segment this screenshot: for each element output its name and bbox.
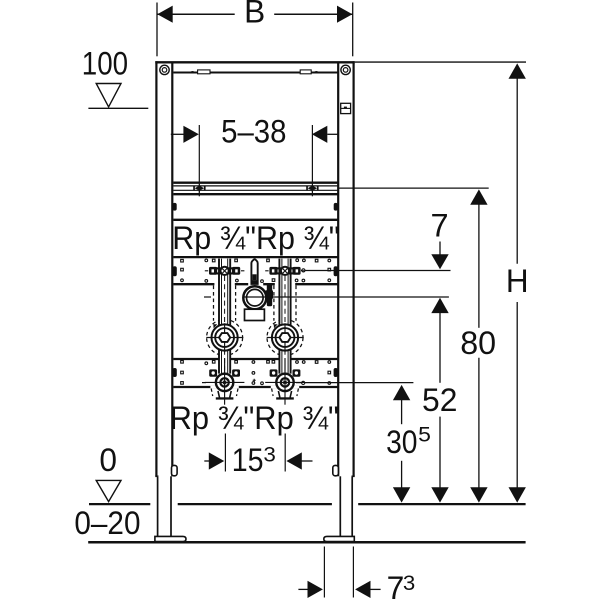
right outlet funnel (276, 391, 294, 400)
datum 0 triangle symbol (96, 480, 121, 501)
svg-text:Rp ¾"Rp ¾": Rp ¾"Rp ¾" (170, 400, 339, 436)
svg-text:7: 7 (431, 207, 449, 243)
lower mounting rail bottom edge (173, 386, 338, 388)
dimension 15.3 right extension line (284, 434, 286, 472)
dimension 5-38 right arrow (312, 126, 327, 143)
lower mounting rail top edge (173, 358, 338, 360)
dimension H line lower (516, 302, 518, 488)
dimension 7.3 left tail line (298, 588, 309, 590)
svg-text:3: 3 (403, 571, 415, 595)
left leg rail end step (155, 475, 158, 477)
svg-text:0: 0 (99, 442, 117, 478)
svg-text:15: 15 (232, 442, 264, 478)
svg-text:30: 30 (386, 424, 417, 460)
dimension B left arrow (157, 6, 172, 23)
water supply assemblies group (205, 259, 305, 405)
svg-text:3: 3 (263, 443, 276, 467)
svg-text:5–38: 5–38 (221, 113, 286, 149)
top rail right bump (313, 71, 319, 73)
adjustable crossbar lower inner line (173, 189, 338, 191)
dimension 5-38 left arrow (183, 126, 198, 143)
left foot tube (158, 476, 171, 536)
top-left screw hole (160, 65, 169, 74)
right supply vertical tube (271, 259, 299, 389)
frame left rail outer edge (155, 61, 157, 476)
upper mounting rail top edge (173, 256, 338, 258)
dimension 80 line upper (478, 204, 480, 327)
dimension 7.3 left arrow (308, 581, 323, 598)
upper mounting rail left lug (173, 266, 177, 276)
svg-text:5: 5 (418, 423, 431, 447)
right lower elbow fitting (265, 359, 305, 405)
dimension 80 up arrow (470, 189, 487, 204)
left upper supply fitting (205, 266, 245, 276)
left supply phantom dashed outline (207, 286, 243, 397)
frame right rail outer edge (353, 61, 355, 476)
dimension 7 line (439, 242, 441, 255)
right leg rail end step (352, 475, 355, 477)
dimension B extension line right (352, 3, 354, 57)
lower mounting rail right lug (334, 368, 338, 377)
left hex nut fitting (206, 323, 243, 352)
leader line from drain socket (52 ref) (204, 296, 449, 298)
upper mounting rail bottom edge (173, 283, 338, 285)
dimension B right arrow (337, 6, 352, 23)
svg-text:7: 7 (387, 570, 405, 600)
dimension 30.5 line upper (401, 400, 403, 424)
drain socket outer ring (243, 286, 266, 309)
upper traverse left lug (173, 203, 177, 211)
svg-text:80: 80 (460, 325, 496, 361)
dimension 5-38 left tail line (171, 133, 184, 135)
right supply phantom dashed outline (267, 286, 303, 397)
svg-text:Rp ¾"Rp ¾": Rp ¾"Rp ¾" (172, 220, 339, 256)
dimension 52 line upper (439, 313, 441, 383)
dimension 30.5 down arrow (393, 487, 410, 502)
top rail right slot (300, 70, 311, 74)
frame top edge extension line to H dimension (355, 61, 526, 63)
drain bracket clip (252, 274, 258, 283)
rail line gap at drain bracket (248, 283, 263, 286)
svg-text:B: B (244, 0, 265, 30)
dimension 52 line lower (439, 417, 441, 488)
dimension H line upper (516, 78, 518, 263)
dimension 80 line lower (478, 358, 480, 488)
floor line (88, 541, 525, 544)
upper mounting rail right lug (334, 266, 338, 276)
adjustable crossbar top edge (173, 182, 338, 184)
small cross mark between lower fittings (253, 379, 256, 382)
svg-text:52: 52 (422, 382, 457, 418)
right upper supply fitting (265, 266, 305, 276)
svg-text:H: H (506, 263, 529, 299)
frame top rail inner (lower) edge (173, 72, 338, 74)
datum 100 level line (88, 107, 148, 109)
top-right screw hole (341, 65, 350, 74)
drain socket clamp screw (265, 284, 273, 306)
dimension B extension line left (156, 3, 158, 57)
leader line from crossbar (80 ref) (339, 187, 489, 189)
right foot tube (340, 476, 352, 536)
dimension 7.3 left extension line (323, 547, 325, 598)
drain socket inner ring (247, 289, 264, 306)
svg-text:0–20: 0–20 (74, 505, 140, 541)
frame top rail top edge (155, 61, 354, 63)
right hex nut fitting (267, 323, 304, 352)
left outlet funnel (216, 391, 234, 400)
leader line from upper rail (7 ref) (301, 269, 451, 272)
dimension 15.3 right arrow (286, 452, 301, 469)
left foot plate (155, 536, 186, 541)
dimension 7.3 right arrow (355, 581, 370, 598)
dimension 7 down arrow (431, 254, 448, 269)
dimension B line (157, 13, 352, 15)
adjustable crossbar bottom edge (173, 193, 338, 195)
dimension 5-38 left extension line (198, 125, 200, 196)
right foot plate (324, 536, 355, 541)
dimension 15.3 left arrow (209, 452, 224, 469)
left leg clamp lug (172, 465, 178, 475)
svg-text:100: 100 (82, 45, 128, 81)
crossbar right slider clamp (306, 184, 318, 193)
upper traverse bottom edge (173, 219, 338, 221)
crossbar left slider clamp (193, 184, 205, 193)
right rail inspection window (341, 103, 351, 113)
dimension 15.3 left tail line (204, 460, 211, 462)
left supply vertical tube (210, 259, 238, 389)
leader line from lower fittings (30.5 ref) (202, 381, 413, 384)
dimension 52 down arrow (431, 487, 448, 502)
datum 100 triangle symbol (96, 84, 121, 107)
upper traverse right lug (334, 203, 338, 211)
drain top bracket (251, 259, 257, 284)
dimension 5-38 right extension line (311, 125, 313, 196)
dimension 7.3 right tail line (369, 588, 381, 590)
finished floor datum line (0 level) (89, 503, 526, 505)
dimension 52 up arrow (431, 298, 448, 313)
top rail left slot (198, 70, 210, 74)
drain bracket lower box (245, 309, 265, 320)
dimension 30.5 up arrow (393, 385, 410, 400)
dimension 30.5 line lower (401, 461, 403, 488)
left lower elbow fitting (205, 359, 245, 405)
lower mounting rail left lug (173, 368, 177, 377)
dimension H down arrow (509, 487, 526, 502)
lower mounting rail holes (181, 361, 331, 385)
frame left rail inner edge (171, 62, 173, 476)
dimension 15.3 left extension line (224, 434, 226, 472)
frame right rail inner edge (337, 62, 339, 476)
upper mounting rail holes (181, 259, 331, 283)
right leg clamp lug (333, 465, 339, 475)
dimension 80 down arrow (470, 487, 487, 502)
dimension 7.3 right extension line (352, 547, 354, 598)
dimension 15.3 right tail line (300, 460, 312, 462)
dimension 5-38 right tail line (327, 133, 338, 135)
adjustable crossbar upper inner line (173, 185, 338, 187)
dimension H up arrow (509, 63, 526, 78)
top rail left bump (189, 71, 195, 73)
